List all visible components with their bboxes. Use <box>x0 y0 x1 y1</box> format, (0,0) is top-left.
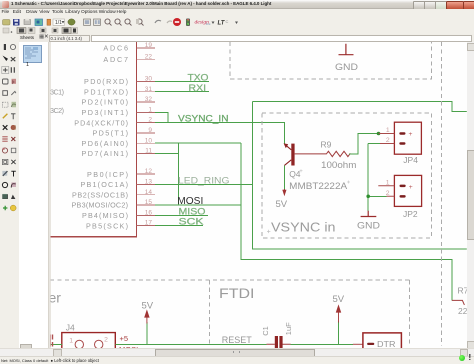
left-edge clipped pin label fragments <box>50 87 64 115</box>
junction at JP2 pin2 <box>366 195 370 199</box>
wire MISO <box>155 214 208 216</box>
splitter <box>49 42 51 348</box>
wire MOSI <box>155 204 241 206</box>
svg-text:VSYNC in: VSYNC in <box>271 221 336 235</box>
dashed frame box B (VSYNC in) <box>262 113 432 238</box>
svg-text:PD3(INT1): PD3(INT1) <box>82 108 129 117</box>
DRC status light <box>459 355 465 361</box>
origin cross MMBT <box>347 181 350 184</box>
svg-text:PD1(TXD): PD1(TXD) <box>84 87 128 96</box>
IC U2 FTDI box with pin DTR <box>363 333 402 349</box>
wire LED_RING <box>155 183 252 185</box>
svg-text:PD7(AIN1): PD7(AIN1) <box>82 149 129 158</box>
svg-text:17: 17 <box>145 220 153 227</box>
dashed frame vertical line (right) <box>441 42 443 346</box>
svg-text:ADC6: ADC6 <box>103 44 128 53</box>
dashed frame box C (FTDI / bottom) <box>50 280 409 346</box>
svg-text:13: 13 <box>145 179 153 186</box>
connector J4 <box>62 333 116 349</box>
svg-text:2: 2 <box>386 137 390 144</box>
pin stub DTR <box>353 343 363 345</box>
svg-text:PB4(MISO): PB4(MISO) <box>82 211 128 220</box>
svg-text:3C1): 3C1) <box>50 87 64 96</box>
transistor Q4 <box>284 123 295 190</box>
origin cross Q4 <box>300 169 303 172</box>
wire into J4 from left <box>50 343 62 345</box>
svg-text:PD4(XCK/T0): PD4(XCK/T0) <box>74 118 128 127</box>
row 3: sheets header + coord + command line <box>0 34 474 42</box>
wire J4 to C1 (RESET net) <box>115 343 266 345</box>
svg-text:1uF: 1uF <box>284 322 293 335</box>
vertical scrollbar <box>467 42 474 348</box>
resistor R7 lead <box>452 300 465 305</box>
sheets panel <box>19 42 49 348</box>
svg-text:+: + <box>409 184 413 191</box>
svg-text:11: 11 <box>145 148 152 155</box>
resistor R9 <box>295 151 350 156</box>
connector JP2 <box>378 175 421 206</box>
svg-text:32: 32 <box>145 96 153 103</box>
svg-text:PD5(T1): PD5(T1) <box>93 129 129 138</box>
supply 5V (right, arrow up) <box>338 322 340 345</box>
dashed frame box A (top) <box>230 42 432 79</box>
svg-text:14: 14 <box>145 189 153 196</box>
horizontal scrollbar <box>0 348 474 356</box>
svg-text:PB0(ICP): PB0(ICP) <box>87 170 128 179</box>
svg-text:16: 16 <box>145 209 153 216</box>
title bar <box>0 0 474 9</box>
svg-text:+: + <box>409 131 413 138</box>
svg-text:er: er <box>49 290 62 306</box>
svg-text:5V: 5V <box>142 301 154 312</box>
ground GND (top) <box>339 44 354 55</box>
svg-text:9: 9 <box>148 127 152 134</box>
menu bar <box>0 9 474 17</box>
supply 5V (left, arrow up) <box>146 322 148 344</box>
svg-text:3C2): 3C2) <box>50 106 64 115</box>
svg-text:10: 10 <box>145 137 153 144</box>
wire RXI <box>155 91 209 93</box>
left-edge clipped red label fragments <box>50 335 52 347</box>
wire C1 to DTR <box>291 343 353 345</box>
canvas <box>51 42 467 348</box>
svg-text:+5: +5 <box>120 334 129 343</box>
svg-text:LED_RING: LED_RING <box>178 175 230 186</box>
svg-text:2: 2 <box>148 117 152 124</box>
svg-text:2: 2 <box>104 336 108 343</box>
svg-text:RXI: RXI <box>189 83 207 94</box>
svg-text:GND: GND <box>335 62 358 73</box>
toolbar row 2 <box>0 27 474 34</box>
window buttons <box>413 1 426 10</box>
wire vertical bus x252 with bottom run <box>252 102 467 249</box>
svg-text:100ohm: 100ohm <box>321 160 356 170</box>
svg-text:TXO: TXO <box>188 72 209 83</box>
origin cross VSYNC in <box>267 230 270 233</box>
ground GND (below JP2) <box>361 211 377 217</box>
svg-text:ADC7: ADC7 <box>103 55 128 64</box>
svg-text:5V: 5V <box>333 294 345 305</box>
svg-text:30: 30 <box>145 76 153 83</box>
wire PD6 net to vertical bus <box>155 143 241 205</box>
svg-text:PB5(SCK): PB5(SCK) <box>86 221 128 230</box>
svg-text:12: 12 <box>145 168 153 175</box>
IC U1 pin stubs <box>136 48 155 226</box>
svg-text:1: 1 <box>148 106 152 113</box>
svg-text:RESET: RESET <box>222 335 252 345</box>
svg-text:PB3(MOSI/OC2): PB3(MOSI/OC2) <box>72 201 129 210</box>
svg-text:5V: 5V <box>276 199 288 210</box>
toolbar row 1 <box>0 17 474 27</box>
wire top net to right edge <box>252 102 467 112</box>
IC U1 (ATmega) body right edge <box>50 40 136 237</box>
svg-text:FTDI: FTDI <box>219 286 255 301</box>
svg-text:J4: J4 <box>66 323 75 333</box>
svg-text:Q4: Q4 <box>289 169 301 179</box>
wire TXO <box>155 80 209 82</box>
IC U1 pin names <box>72 44 129 231</box>
svg-text:31: 31 <box>145 86 153 93</box>
svg-text:1: 1 <box>386 127 390 134</box>
svg-text:PD2(INT0): PD2(INT0) <box>82 98 129 107</box>
svg-text:1: 1 <box>69 337 73 344</box>
svg-text:1: 1 <box>386 180 390 187</box>
wire JP4 pin2 down to JP2 pin2 and GND <box>368 144 387 211</box>
svg-text:MMBT2222A: MMBT2222A <box>289 181 347 191</box>
IC U1 pin numbers <box>145 42 153 227</box>
svg-text:19: 19 <box>145 42 153 49</box>
status bar <box>0 356 474 364</box>
svg-text:PD6(AIN0): PD6(AIN0) <box>82 139 129 148</box>
svg-text:VSYNC_IN: VSYNC_IN <box>178 113 229 124</box>
supply 5V below Q4 (arrow down) <box>283 189 285 190</box>
wire VSYNC_IN net (pin1 jog + pin2 run to Q4) <box>155 112 284 144</box>
svg-text:GND: GND <box>357 220 380 231</box>
junction at JP4 pin1 <box>377 132 381 136</box>
svg-text:JP2: JP2 <box>403 209 418 219</box>
svg-text:PB1(OC1A): PB1(OC1A) <box>81 180 129 189</box>
svg-text:R9: R9 <box>321 140 332 150</box>
wire MOSI bus down to R7 <box>241 143 452 300</box>
svg-text:22: 22 <box>145 53 153 60</box>
connector JP4 <box>379 122 422 154</box>
svg-text:JP4: JP4 <box>403 155 418 165</box>
wire R9 to JP4 pin1 <box>349 134 379 154</box>
svg-text:C1: C1 <box>261 326 270 336</box>
svg-text:15: 15 <box>145 199 153 206</box>
svg-text:SCK: SCK <box>179 217 205 228</box>
left toolbar <box>0 42 19 348</box>
svg-text:PD0(RXD): PD0(RXD) <box>84 77 128 86</box>
svg-text:PB2(SS/OC1B): PB2(SS/OC1B) <box>72 190 128 199</box>
svg-text:2: 2 <box>386 190 390 197</box>
wire SCK <box>155 225 203 227</box>
capacitor C1 <box>267 336 291 348</box>
